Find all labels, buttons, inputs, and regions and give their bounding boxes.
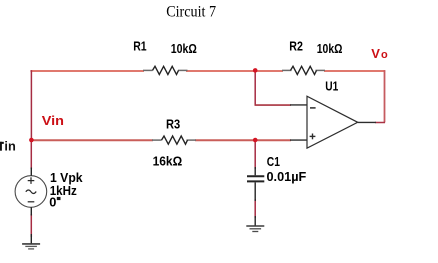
- svg-text:R1: R1: [133, 39, 146, 54]
- resistor R3: [152, 136, 196, 144]
- svg-text:C1: C1: [267, 154, 280, 169]
- resistor R2: [282, 66, 325, 74]
- svg-text:in: in: [4, 139, 16, 154]
- wire: top horizontal left of R1: [30, 70, 144, 72]
- svg-text:0.01µF: 0.01µF: [267, 169, 307, 184]
- label in (clipped at left edge): [0, 142, 4, 151]
- wire: inverting branch vertical: [254, 70, 256, 105]
- node junction at R1/R2: [253, 68, 258, 73]
- op-amp U1: [290, 96, 376, 148]
- svg-text:Circuit 7: Circuit 7: [166, 3, 216, 20]
- wire: inverting branch horizontal: [255, 104, 292, 106]
- wire: Vin net left segment: [30, 139, 153, 141]
- svg-text:o: o: [381, 49, 388, 61]
- wire: C1 bottom vertical: [254, 199, 256, 218]
- svg-text:10kΩ: 10kΩ: [171, 41, 197, 56]
- wire: top horizontal R1 to R2: [186, 70, 283, 72]
- resistor R1: [143, 66, 188, 74]
- wire: right vertical to op-amp output: [384, 70, 386, 122]
- svg-text:10kΩ: 10kΩ: [317, 41, 343, 56]
- wire: source top vertical: [30, 140, 32, 169]
- node junction at Vin/C1: [253, 138, 258, 143]
- wire: top horizontal R2 to right corner: [324, 70, 385, 72]
- svg-text:V: V: [371, 46, 380, 61]
- svg-text:R3: R3: [166, 116, 180, 131]
- svg-text:Vin: Vin: [42, 113, 64, 128]
- voltage source V1: [15, 168, 47, 216]
- wire: Vin net R3 to op-amp: [195, 139, 291, 141]
- ground (source): [22, 234, 40, 249]
- wire: output short horizontal: [375, 122, 385, 124]
- svg-text:R2: R2: [289, 38, 303, 53]
- ground (C1): [246, 216, 264, 232]
- svg-text:U1: U1: [325, 78, 338, 93]
- wire: C1 top vertical: [254, 140, 256, 169]
- wire: left vertical rail: [30, 70, 32, 140]
- node junction at source: [29, 138, 34, 143]
- wire: source bottom vertical: [30, 214, 32, 237]
- svg-text:0: 0: [49, 194, 56, 209]
- capacitor C1: [247, 167, 264, 201]
- svg-text:16kΩ: 16kΩ: [153, 154, 183, 169]
